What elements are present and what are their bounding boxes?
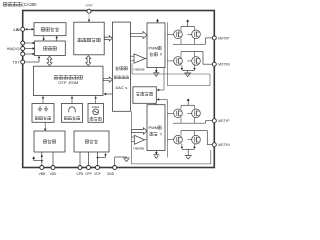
pin SWI top [85,3,92,13]
pin LIN [14,27,25,32]
svg-text:MOTYN: MOTYN [218,143,230,147]
svg-text:PWM: PWM [149,125,159,130]
block bus interface [34,23,66,36]
pin CPP [85,166,92,176]
pin HW0 [21,52,25,56]
ground symbol H-bridge Y [185,155,192,157]
bidirectional arrow controller-OTP [47,56,52,65]
pin VBB [39,166,45,176]
pin VCP [94,166,101,176]
hollow arrow position controller to decoder [104,36,112,41]
block voltage reference [32,104,54,123]
wire bus interface to controller (down) [43,36,45,41]
svg-text:TST: TST [13,61,21,65]
wire controller to bus interface (up) [56,36,58,41]
chip outer border [23,11,215,168]
transistor X high-side left [167,30,182,39]
arrow decoder to OTP [104,93,113,96]
H-bridge X top rail [181,27,195,31]
wire PWM X to stall detect [157,68,164,92]
svg-text:CPP: CPP [85,172,92,176]
H-bridge X ground node [181,65,196,73]
svg-text:i-Sense: i-Sense [133,67,144,71]
bidirectional arrow position controller-OTP [86,56,91,66]
block position controller [74,22,104,55]
svg-text:i-Sense: i-Sense [133,146,144,150]
wire MOTYN rail [181,131,213,145]
H-bridge Y ground node [181,144,196,155]
transistor Y high-side left [167,109,182,118]
wire GND pin to ground symbol [115,157,130,165]
svg-text:SWI: SWI [85,3,92,7]
transistor Y low-side left [167,135,182,144]
svg-text:LIN: LIN [14,28,20,32]
wire decoder DAC Y feed down [130,111,132,164]
H-bridge Y gate bus [166,101,168,158]
hollow arrow decoder to PWM Y [131,128,147,134]
pin HW2 [21,41,25,45]
wire VBB pin to regulator [32,152,43,165]
svg-text:PWM: PWM [149,45,159,50]
svg-text:DAC' s: DAC' s [116,86,128,90]
pin MOTYN [212,143,230,147]
block stall detection [133,87,156,104]
wire HW1 to controller [25,47,35,49]
ground symbol H-bridge X [184,72,191,74]
svg-text:MOTXN: MOTXN [218,63,230,67]
svg-text:HW(2:0): HW(2:0) [7,47,20,51]
H-bridge Y supply arrow [187,98,190,105]
arrow voltage reference to OTP [42,96,44,104]
wire Y loop to stall detect [157,98,167,104]
svg-text:GND: GND [107,172,115,176]
wire Y sense line [131,150,211,164]
svg-text:(CA380: (CA380 [22,2,37,7]
wire HW0 to controller [25,53,35,55]
svg-text:VCP: VCP [94,172,101,176]
svg-text:1MHz: 1MHz [92,105,100,109]
transistor X low-side right [187,57,200,66]
arrow temperature alarm to OTP [71,96,73,104]
H-bridge X supply arrow [186,19,189,26]
wire VCP to charge pump [97,152,107,165]
hollow arrow decoder to PWM X [131,32,148,39]
svg-text:CPN: CPN [77,172,84,176]
pin MOTXN [212,62,230,66]
block temperature alarm [61,104,82,123]
arrow PWM X up to supply [156,19,159,23]
comparator i-Sense X [130,54,147,72]
title copyright text [3,2,37,7]
block controller [35,41,66,56]
svg-text:MOTXP: MOTXP [218,36,229,40]
ground below PWM X [153,68,159,77]
arrow PWM Y to stall detect bottom [155,103,157,105]
wire CPN to charge pump [79,152,81,165]
wire MOTXN rail [181,52,213,65]
svg-text:MOTYP: MOTYP [218,119,229,123]
H-bridge Y top rail [181,105,195,109]
block PWM modulator X [147,23,165,68]
wire TST to controller bottom [25,56,40,62]
pin VDD [50,166,57,176]
pin MOTXP [212,36,229,40]
wire HW2 to controller [25,42,35,44]
wire CPP to charge pump [88,152,90,165]
arrow voltage reference to regulator [44,122,46,131]
ground below PWM Y [153,151,159,159]
pin GND [107,166,117,176]
comparator i-Sense Y [131,135,147,150]
wire SWI to position controller [88,13,90,22]
wire LIN to bus interface (bidirectional) [25,28,34,30]
pin CPN [77,166,84,176]
hollow arrow OTP to decoder [103,77,112,82]
H-bridge X gate bus and frame [167,22,210,85]
transistor Y high-side right [187,109,200,118]
wire X sense feed [132,63,210,74]
svg-text:OTP -ROM: OTP -ROM [58,80,78,85]
svg-text:VBB: VBB [39,172,45,176]
block charge pump [74,131,109,152]
pin HW1 [7,47,25,52]
wire MOTYP node [173,118,213,124]
wire VDD pin to regulator [52,152,54,165]
arrow oscillator to OTP [95,96,97,104]
block OTP ROM [34,66,104,95]
block PWM modulator Y [147,105,165,151]
pin MOTYP [212,119,229,123]
transistor X high-side right [187,30,200,39]
block oscillator [88,104,104,123]
pin TST [13,60,25,65]
svg-text:VDD: VDD [50,172,57,176]
block voltage regulator [34,131,65,152]
transistor Y low-side right [187,135,200,144]
wire MOTXP node [173,38,213,44]
block decoder sine-table DACs [113,22,131,111]
transistor X low-side left [167,57,182,66]
